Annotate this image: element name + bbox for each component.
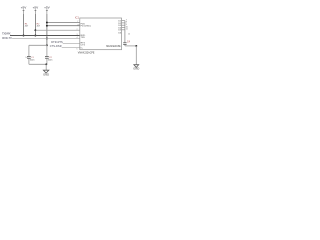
wire VCC (from left label to IC) bbox=[12, 37, 80, 39]
wire gnd right horizontal bbox=[125, 45, 136, 47]
wire tie vertical right bbox=[124, 21, 126, 43]
svg-text:2: 2 bbox=[77, 29, 78, 31]
wire gnd stem bbox=[45, 64, 47, 70]
svg-text:MAX232ACPE: MAX232ACPE bbox=[106, 45, 121, 48]
node junction R2/wire TXD bbox=[34, 35, 36, 37]
svg-text:DTR-RTS: DTR-RTS bbox=[51, 41, 63, 44]
wire RXD (upper, into IC pin) bbox=[35, 29, 79, 31]
svg-text:+5V: +5V bbox=[44, 6, 51, 10]
resistor R2 bbox=[35, 14, 41, 36]
resistor R1 bbox=[24, 14, 30, 36]
svg-text:100n: 100n bbox=[48, 59, 54, 61]
svg-text:4: 4 bbox=[77, 37, 78, 39]
node junction R2/wire RXD branch bbox=[34, 29, 36, 31]
svg-text:12: 12 bbox=[128, 34, 131, 36]
power +5V flag 2 bbox=[33, 6, 40, 14]
power +5V flag 1 bbox=[21, 6, 28, 14]
wire C1 top lead bbox=[28, 45, 30, 56]
wire cap tap bbox=[29, 44, 47, 46]
IC IC1 body bbox=[80, 18, 122, 50]
svg-text:100n: 100n bbox=[30, 59, 36, 61]
node junction +5V/AVCC bbox=[46, 25, 48, 27]
wire +5V vertical bbox=[46, 14, 48, 45]
node junction gnd bbox=[45, 63, 47, 65]
pin numbers left of box bbox=[76, 29, 77, 51]
pin numbers right bbox=[126, 19, 131, 35]
wire C1 bottom lead bbox=[28, 58, 30, 64]
wire C2 bottom lead bbox=[46, 58, 48, 64]
wire VCC pin (upper) bbox=[47, 22, 80, 24]
pin labels right column bbox=[118, 21, 122, 35]
wire gnd right stem bbox=[135, 46, 137, 65]
capacitor C1 bbox=[27, 57, 35, 62]
svg-text:TXD: TXD bbox=[81, 37, 86, 39]
wire C4 bottom lead bbox=[124, 45, 126, 46]
svg-text:5: 5 bbox=[76, 48, 77, 50]
power +5V flag 3 bbox=[44, 6, 51, 14]
svg-text:4k7: 4k7 bbox=[37, 25, 41, 27]
svg-text:CTS: CTS bbox=[81, 44, 86, 46]
svg-text:RXD-TX: RXD-TX bbox=[2, 36, 12, 40]
ground 2 bbox=[134, 65, 139, 68]
svg-text:CTS-DSR: CTS-DSR bbox=[50, 45, 62, 48]
wire AVCC pin bbox=[47, 25, 80, 27]
svg-text:11: 11 bbox=[126, 29, 129, 31]
svg-text:+5V: +5V bbox=[33, 6, 40, 10]
svg-text:VMAX232ACPE: VMAX232ACPE bbox=[78, 51, 95, 54]
wire net E (into IC) bbox=[62, 46, 80, 48]
node junction +5V/VCC upper bbox=[46, 22, 48, 24]
node junction +5V/wire VCC bbox=[46, 37, 48, 39]
wire TXD (from left label to IC) bbox=[10, 35, 80, 37]
node junction +5V/cap tap bbox=[46, 44, 48, 46]
wire C2 top lead bbox=[46, 45, 48, 56]
svg-text:GND: GND bbox=[43, 72, 49, 76]
node junction gnd right bbox=[135, 45, 137, 47]
svg-text:TXD-RX: TXD-RX bbox=[2, 32, 11, 36]
svg-text:IC1: IC1 bbox=[75, 15, 80, 19]
pin stubs right bbox=[122, 21, 125, 30]
svg-text:GND: GND bbox=[133, 67, 139, 71]
wire net D (into IC) bbox=[63, 43, 80, 45]
svg-text:+5V: +5V bbox=[21, 6, 28, 10]
node junction R1/wire TXD bbox=[23, 35, 25, 37]
svg-text:4k7: 4k7 bbox=[25, 25, 29, 27]
svg-text:7: 7 bbox=[77, 21, 78, 23]
capacitor C2 bbox=[45, 57, 53, 62]
svg-text:PD1(TXD): PD1(TXD) bbox=[81, 26, 91, 28]
wire gnd bottom bbox=[29, 63, 46, 65]
svg-text:C4: C4 bbox=[127, 40, 131, 43]
svg-text:1u: 1u bbox=[25, 57, 27, 59]
ground 1 bbox=[43, 70, 48, 73]
svg-text:3: 3 bbox=[77, 34, 78, 36]
capacitor C4 bbox=[123, 40, 130, 44]
svg-text:20: 20 bbox=[77, 24, 79, 26]
